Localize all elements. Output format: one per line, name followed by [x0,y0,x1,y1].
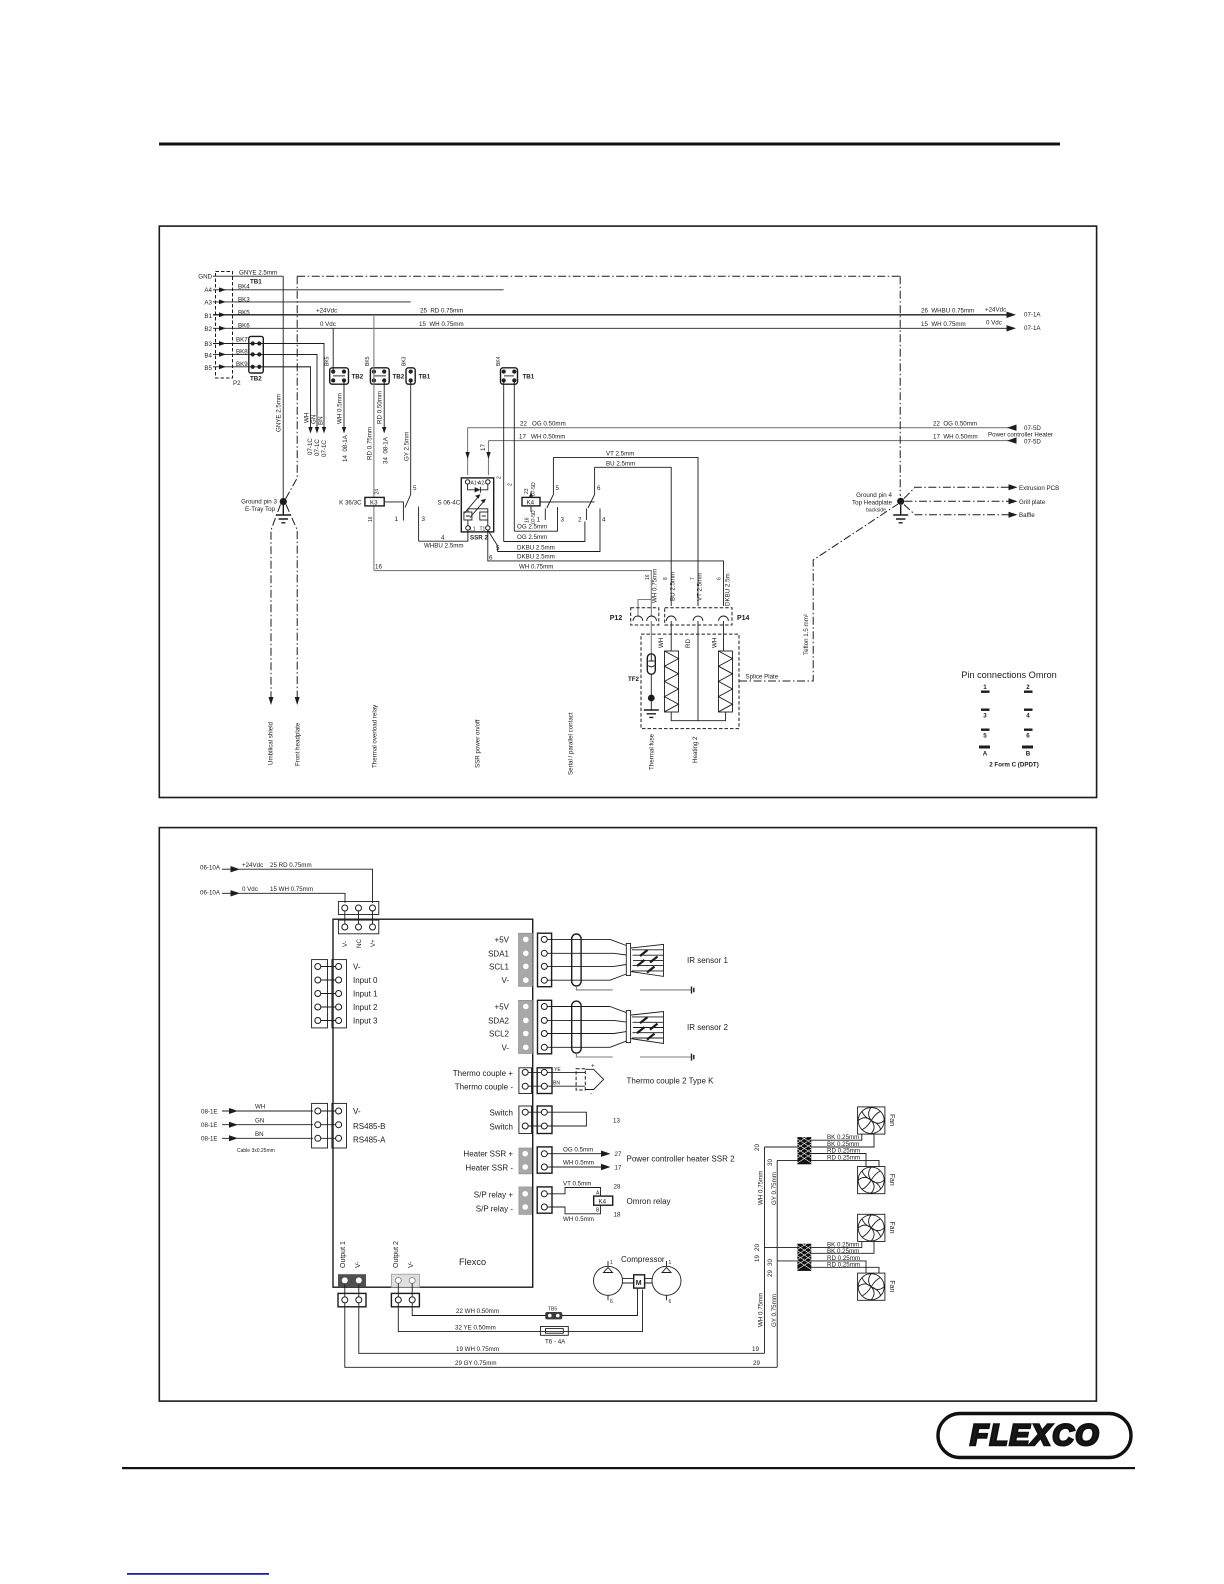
svg-text:K3: K3 [370,499,378,506]
svg-text:6: 6 [597,485,601,492]
cable oval [572,934,581,986]
P14 pin arcs [666,616,728,621]
svg-text:07-1C: 07-1C [314,439,321,456]
arrow RD 0.50 [382,427,386,434]
shield wire [576,986,690,990]
svg-text:TB1: TB1 [250,279,262,286]
svg-text:WH: WH [712,638,719,648]
RS485 connector right col gray [321,1103,347,1148]
svg-text:BN: BN [318,416,325,425]
svg-text:06-10A: 06-10A [200,890,221,897]
svg-text:E-Tray Top: E-Tray Top [245,506,275,513]
svg-text:1: 1 [537,517,541,524]
svg-text:Baffle: Baffle [1019,512,1035,519]
svg-text:WH 0.5mm: WH 0.5mm [337,393,344,424]
arrow BK9 [308,427,312,434]
fan 2 [858,1167,895,1194]
svg-text:5: 5 [983,733,987,740]
svg-text:WH 0.75mm: WH 0.75mm [758,1171,765,1205]
arrow 0vdc right [1007,325,1017,331]
arrow BK8 [315,427,319,434]
svg-text:19 WH 0.75mm: 19 WH 0.75mm [456,1346,499,1353]
svg-text:08-1E: 08-1E [201,1136,218,1143]
svg-text:Ground pin 3: Ground pin 3 [241,499,277,506]
controller main box [333,919,533,1287]
svg-text:17 WH 0.50mm: 17 WH 0.50mm [933,434,978,441]
svg-text:BN: BN [553,1081,560,1087]
arrow BK7 [322,427,326,434]
input connector left col [312,960,328,1028]
svg-text:WH: WH [304,413,311,423]
svg-text:S 06-4C: S 06-4C [438,500,461,507]
dash-dot vertical at 297 down to ground pin3 [286,276,298,499]
svg-text:30: 30 [767,1159,774,1166]
svg-text:29: 29 [767,1270,774,1277]
wires to cable [547,1007,614,1048]
svg-text:SCL1: SCL1 [489,962,510,971]
svg-text:B4: B4 [204,353,212,360]
wire VT to K4 [547,1188,600,1197]
svg-text:WH: WH [255,1104,265,1111]
plug under output2 [391,1293,419,1306]
svg-text:BK5: BK5 [365,356,371,366]
arrow 0vdc [222,892,234,894]
wire P12 pin2 down to thermal fuse [650,621,652,655]
terminal TB1 #2 [496,356,535,384]
svg-text:26 WHBU 0.75mm: 26 WHBU 0.75mm [921,308,974,315]
wires to cable [547,939,614,980]
svg-text:WH 0.75mm: WH 0.75mm [519,564,553,571]
svg-text:25 RD 0.75mm: 25 RD 0.75mm [420,308,463,315]
wire 22 OG 0.50mm [468,427,1010,429]
wire A4 verticals from TB1#2 [504,381,515,542]
pin 2 [1024,684,1033,693]
wire 20 lower [765,1246,798,1248]
svg-text:K 36/3C: K 36/3C [339,500,362,507]
wire 17 WH 0.50mm [489,440,1011,442]
svg-text:22 OG 0.50mm: 22 OG 0.50mm [933,421,977,428]
svg-text:SSR 2: SSR 2 [470,535,488,542]
svg-text:VT 0.5mm: VT 0.5mm [563,1181,591,1188]
wire BN [237,1137,313,1139]
wire A4/BK4 [213,289,504,291]
gray pin bar [519,1000,533,1053]
svg-text:1: 1 [669,1260,672,1266]
svg-text:Heating 2: Heating 2 [692,736,699,763]
svg-text:2: 2 [497,476,503,479]
relay K4 (omron) [594,1196,613,1205]
wire OG 2.5mm #1 [514,507,557,531]
wire WHBU 2.5mm: K3 contact3 to SSR L1 [419,530,468,541]
wire 29 GY 0.75mm [345,1303,777,1367]
fan 3 [858,1214,895,1241]
svg-text:NC: NC [356,939,363,948]
converge to bar [610,939,626,980]
svg-text:Pin connections Omron: Pin connections Omron [961,670,1057,680]
svg-text:Omron relay: Omron relay [627,1197,671,1206]
wire WH 0.5mm from TB2#1 down [343,381,345,428]
plug connector [538,1000,552,1054]
connector P2 dashed outline [216,272,233,379]
svg-text:22 WH 0.50mm: 22 WH 0.50mm [456,1308,499,1315]
svg-text:+5V: +5V [495,935,510,944]
switch loop wire [547,1112,586,1126]
svg-text:RS485-B: RS485-B [353,1122,385,1131]
svg-text:0 Vdc: 0 Vdc [242,886,258,893]
svg-text:4: 4 [1026,713,1030,720]
svg-text:B1: B1 [204,313,212,320]
svg-text:22 OG 0.50mm: 22 OG 0.50mm [520,421,566,428]
dash-dot to Baffle [904,505,1009,515]
svg-text:WH: WH [658,638,665,648]
svg-text:Fan: Fan [888,1221,895,1233]
svg-text:Fan: Fan [888,1114,895,1126]
dash-dot to Grill plate [905,500,1010,502]
K4 switch B (6-2-4) [540,467,595,508]
wire GNYE vertical to ground pin 3 [282,276,284,498]
svg-text:TB2: TB2 [352,374,364,381]
svg-text:6: 6 [717,577,723,580]
output2 connector light [391,1274,419,1287]
svg-text:Fan: Fan [888,1174,895,1186]
wire BK7 down [263,344,324,429]
node dot [648,695,655,702]
wire B5/BK9 [213,366,311,368]
K4 switch A (5-1-3) [540,457,553,508]
svg-text:Cable 3x0.25mm: Cable 3x0.25mm [237,1148,275,1154]
svg-text:+24Vdc: +24Vdc [985,307,1006,314]
svg-text:30: 30 [767,1259,774,1266]
wires [547,1072,576,1086]
sensor bar [626,944,630,976]
wire 22 WH 0.50mm [412,1288,637,1315]
svg-text:V+: V+ [370,939,377,947]
svg-text:RD 0.25mm: RD 0.25mm [827,1261,860,1268]
svg-text:Input 2: Input 2 [353,1003,378,1012]
svg-text:Flexco: Flexco [459,1257,486,1267]
plug under output1 [338,1293,366,1306]
svg-text:06-10A: 06-10A [200,865,221,872]
svg-text:+: + [591,1063,595,1070]
wire B4/BK8 [213,353,317,355]
wire B3/BK7 [213,343,324,345]
power connector row 2 [338,911,378,934]
pin A [979,746,990,758]
svg-text:VT 2.5mm: VT 2.5mm [697,573,704,601]
wire BU into coil1 top [670,621,672,651]
svg-text:Grill plate: Grill plate [1019,499,1046,506]
svg-text:B2: B2 [204,326,212,333]
wire RD middle [697,621,699,721]
svg-text:2: 2 [1026,684,1030,691]
arrows 08-1E [222,1111,232,1138]
RS485 connector left col [312,1103,328,1148]
svg-text:07-1C: 07-1C [321,440,328,457]
svg-text:TB2: TB2 [250,376,262,383]
svg-text:BK4: BK4 [496,356,502,366]
wire 32 YE 0.50mm [398,1290,642,1332]
output fets [468,509,488,526]
svg-text:OG 2.5mm: OG 2.5mm [517,534,547,541]
contact 3 [418,507,420,542]
solid state relay SSR 2 (S 06-4C) [461,478,493,533]
P12 pin arcs [633,616,657,621]
svg-text:RD: RD [685,639,692,648]
svg-text:SSR power on/off: SSR power on/off [475,719,482,768]
svg-text:RD 0.75mm: RD 0.75mm [367,427,374,460]
svg-text:IR sensor 2: IR sensor 2 [687,1023,728,1032]
wire 22 down to SSR A1 [467,428,469,475]
svg-text:25 RD 0.75mm: 25 RD 0.75mm [270,862,312,869]
wire 20 upper [765,1146,798,1148]
svg-text:RD 0.50mm: RD 0.50mm [377,391,384,424]
svg-text:P14: P14 [737,615,750,622]
heater coil 1 [658,638,679,712]
splice hatch block lower [797,1241,811,1271]
svg-text:Output 2: Output 2 [393,1241,400,1268]
pin 6 [1024,729,1033,740]
ground pin 3 node [280,498,287,505]
terminal TB2 #2 [365,356,405,384]
svg-text:DKBU 2.5m: DKBU 2.5m [725,573,732,606]
svg-text:GY 2.5mm: GY 2.5mm [404,432,411,461]
terminal TB2 #1 [325,356,364,384]
fuse T6-4A [541,1327,569,1336]
svg-text:GND: GND [198,274,212,281]
wire 0Vdc [239,893,345,903]
svg-text:20: 20 [754,1244,761,1251]
converge to bar [610,1007,626,1048]
ground symbol pin4 [893,505,908,523]
svg-text:TB2: TB2 [393,374,405,381]
arrow WH 0.5 [342,427,346,434]
svg-text:07-1A: 07-1A [1024,325,1041,332]
svg-text:V-: V- [353,1107,361,1116]
fan 1 [858,1107,895,1134]
terminal TB1 #1 [402,356,431,384]
wire WH 0.5mm [547,1166,603,1168]
svg-text:BK3: BK3 [238,297,250,304]
fan4 wires RD [811,1261,879,1273]
pin 3 [981,709,990,720]
svg-text:RD 0.25mm: RD 0.25mm [827,1154,860,1161]
arrow 22 left-pointing [1007,425,1017,431]
TC dashed box [576,1069,585,1090]
svg-text:7: 7 [690,577,696,580]
svg-text:Output 1: Output 1 [340,1241,347,1268]
svg-text:29: 29 [753,1360,760,1367]
svg-text:15 WH 0.75mm: 15 WH 0.75mm [921,321,966,328]
svg-text:16: 16 [645,574,651,580]
svg-text:GNYE 2.5mm: GNYE 2.5mm [239,270,277,277]
svg-text:Heater SSR +: Heater SSR + [463,1150,513,1159]
svg-text:Compressor: Compressor [621,1255,665,1264]
input connector right col [321,960,347,1028]
arrow 17 left-pointing [1007,437,1017,443]
wire 30 upper [777,1159,797,1161]
svg-text:Input 1: Input 1 [353,990,378,999]
svg-text:Heater SSR -: Heater SSR - [465,1164,513,1173]
svg-text:A3: A3 [204,300,212,307]
svg-text:SCL2: SCL2 [489,1030,510,1039]
arrow umbilical [269,697,274,705]
svg-text:17: 17 [480,444,487,451]
svg-text:19: 19 [752,1346,759,1353]
power connector row 1 [338,902,378,915]
svg-text:FLEXCO: FLEXCO [970,1419,1100,1452]
wire 16 jog into P12 pin1 [638,600,651,617]
svg-text:TF2: TF2 [628,676,640,683]
pin 4 [1024,709,1033,720]
svg-text:4: 4 [441,535,445,542]
ground symbol pin3 [276,505,291,523]
svg-text:Teflon 1.5 mm²: Teflon 1.5 mm² [803,614,810,655]
FLEXCO logo [938,1414,1131,1458]
main dash-dot bus top [297,275,900,277]
svg-text:Thermo couple +: Thermo couple + [453,1069,514,1078]
wire OG 0.5mm [547,1153,603,1155]
svg-text:Thermo couple -: Thermo couple - [455,1083,514,1092]
svg-text:DKBU 2.5mm: DKBU 2.5mm [517,554,555,561]
svg-text:16: 16 [525,517,531,523]
svg-text:SDA2: SDA2 [488,1016,509,1025]
thermal overload switch blade [405,495,411,508]
wire 17 down to SSR A2 [488,441,490,475]
pin 5 [981,729,990,740]
shield wire [576,1053,690,1057]
svg-text:A: A [983,751,988,758]
svg-text:OG 0.5mm: OG 0.5mm [563,1146,593,1153]
svg-text:IR sensor 1: IR sensor 1 [687,956,728,965]
fan vertical GY 0.75mm [776,1160,778,1367]
wire TF2 to ground [650,674,652,710]
svg-text:20: 20 [754,1144,761,1151]
svg-text:07-1C: 07-1C [307,438,314,455]
svg-text:5: 5 [413,485,417,492]
svg-text:BK3: BK3 [402,356,408,366]
opto arrows [465,496,485,518]
svg-text:WHBU 2.5mm: WHBU 2.5mm [424,543,464,550]
svg-text:2 Form C (DPDT): 2 Form C (DPDT) [989,762,1039,769]
svg-text:3: 3 [983,713,987,720]
svg-text:+24Vdc: +24Vdc [242,862,263,869]
wire BK8 down [263,354,317,428]
svg-text:B: B [1026,751,1031,758]
svg-text:V-: V- [355,1261,362,1268]
heater bottom bus [671,712,725,721]
svg-text:RS485-A: RS485-A [353,1136,386,1145]
wire 19 WH 0.75mm [359,1303,765,1353]
svg-text:Input 3: Input 3 [353,1017,378,1026]
svg-text:L1: L1 [470,527,476,533]
svg-text:DKBU 2.5mm: DKBU 2.5mm [517,545,555,552]
arrow +24 [222,868,234,870]
svg-text:Thermal overload relay: Thermal overload relay [372,704,379,768]
svg-text:0 Vdc: 0 Vdc [986,320,1002,327]
svg-text:4: 4 [602,517,606,524]
svg-text:A4: A4 [204,287,212,294]
svg-text:SDA1: SDA1 [488,949,509,958]
sensor cone [631,944,664,976]
motor 2 [652,1266,681,1295]
wire WH [237,1110,313,1112]
svg-text:S/P relay -: S/P relay - [476,1204,514,1213]
wire B1 +24Vdc / 25 RD 0.75mm [213,314,1014,316]
svg-text:M: M [636,1280,642,1287]
svg-text:6: 6 [489,555,493,562]
wire VT 2.5mm [553,457,698,606]
svg-text:GN: GN [311,415,318,424]
panel 1 frame [159,226,1096,797]
svg-text:Umbilical shield: Umbilical shield [268,721,275,765]
svg-text:BK7: BK7 [236,337,248,344]
svg-text:backside: backside [866,508,886,514]
wire BK9 down [263,367,310,428]
svg-text:24: 24 [375,489,381,495]
svg-text:16: 16 [375,564,382,571]
svg-text:Top Headplate: Top Headplate [852,500,892,507]
wire GND/GNYE horizontal [213,275,283,277]
svg-text:GY 0.75mm: GY 0.75mm [771,1294,778,1327]
svg-text:TB1: TB1 [419,374,431,381]
sensor cone [631,1012,664,1044]
fan3 wires BK [811,1242,874,1254]
svg-text:S/P relay +: S/P relay + [474,1191,514,1200]
svg-text:07-5D: 07-5D [1024,439,1041,446]
bottom rule [122,1467,1135,1469]
ground pin 4 node [897,498,904,505]
output1 connector dark [338,1274,366,1287]
dash-dot V legs below ground pin 3 [271,505,281,699]
svg-text:3: 3 [561,517,565,524]
svg-text:23: 23 [524,488,530,494]
svg-text:Splice Plate: Splice Plate [746,674,779,681]
arrow front headplate [295,697,300,705]
svg-text:T1: T1 [480,527,486,533]
wire DKBU into coil2 top [724,621,726,651]
svg-text:B: B [596,1208,600,1214]
arrow +24 right [1007,312,1017,318]
svg-text:V-: V- [342,941,349,947]
svg-text:TB5: TB5 [548,1307,557,1313]
svg-text:BN: BN [255,1131,264,1138]
svg-text:34 08-1A: 34 08-1A [383,436,390,464]
sensor bar [626,1011,630,1043]
svg-text:VT 2.5mm: VT 2.5mm [606,450,634,457]
wire OG 2.5mm #2 [504,522,585,542]
svg-text:-: - [590,1091,592,1098]
svg-text:2: 2 [578,517,582,524]
svg-text:07-1A: 07-1A [1024,312,1041,319]
fan1 wires BK [811,1134,874,1147]
wire 30 lower [777,1260,797,1262]
svg-text:T6 - 4A: T6 - 4A [545,1339,566,1346]
svg-text:WH 0.5mm: WH 0.5mm [563,1160,594,1167]
svg-text:3: 3 [422,516,426,523]
svg-text:GY 0.75mm: GY 0.75mm [771,1172,778,1205]
wire +24Vdc [239,869,373,903]
wire GN [237,1124,313,1126]
splice hatch block upper [797,1134,811,1164]
svg-text:08-1E: 08-1E [201,1122,218,1129]
svg-text:GNYE 2.5mm: GNYE 2.5mm [276,394,283,432]
svg-text:1: 1 [983,684,987,691]
svg-text:8: 8 [663,577,669,580]
plug connector [538,933,552,987]
svg-text:A2-: A2- [478,481,486,487]
svg-text:WH 0.75mm: WH 0.75mm [758,1293,765,1327]
dash-dot to Extrusion PCB [904,487,1009,498]
